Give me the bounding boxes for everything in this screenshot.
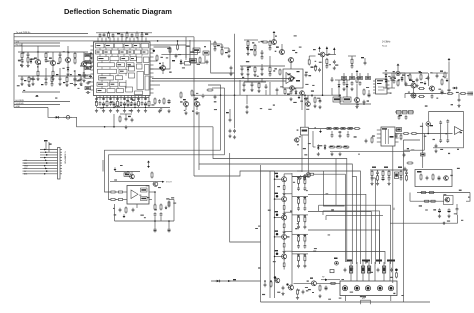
wire [211,280,261,282]
junction [108,32,110,34]
transistor Q404 [271,40,277,45]
blob label [20,65,22,66]
transistor Q403 [194,102,200,111]
blob label [377,80,383,81]
resistor R456 [308,173,315,175]
arrow Vcc B [326,46,328,54]
wire [239,80,241,95]
blob label [217,45,228,53]
transistor Q57 [288,285,294,290]
arrow dark [298,95,301,99]
wire [304,95,306,127]
wire [335,80,350,83]
wire [102,160,104,172]
wire [318,54,336,56]
resistor group stage 5 [292,254,308,268]
resistor R436 [301,127,309,135]
blob label [141,198,146,200]
resistor R463 [368,266,371,273]
wire [114,204,116,221]
junction [104,126,106,128]
capacitor C446 [168,228,171,233]
resistor R433 [420,174,422,181]
wire [418,134,424,151]
wire [332,131,348,134]
junction [322,94,324,96]
wire [113,114,115,127]
wire U401 top pins [98,38,146,42]
wire [247,76,249,82]
chain fb1 [348,56,356,69]
wire rail B [269,171,271,298]
ground [233,135,236,139]
wire [154,60,158,62]
capacitor C428 [439,121,442,125]
diode D420 dark [424,81,427,85]
wire [297,170,302,172]
chain ladder1 [20,52,23,67]
svg-text:ABL: ABL [24,173,27,176]
wire [224,47,229,49]
svg-text:GND: GND [24,166,29,168]
svg-text:GND: GND [16,106,21,108]
capacitor C437 [331,133,334,137]
capacitor C431 [446,139,449,143]
chain rc6 [405,170,408,181]
wire tall x199 [198,112,200,170]
wire [301,95,303,110]
wire [417,133,453,135]
wire [398,72,428,74]
wire [427,126,429,133]
junction [67,51,68,52]
wire [246,95,248,104]
resistor R466 [395,272,397,279]
blob label [377,83,382,84]
resistor R477 [409,73,411,81]
resistor group stage 2 [292,197,308,211]
wire [417,192,470,194]
chain lb1 [31,76,34,86]
blob label [86,54,90,56]
chain tc4 [269,40,272,66]
wire vert extra1 [356,176,358,264]
wire row2 [18,75,88,77]
wire [433,134,463,148]
transistor Q54 stage [274,230,292,253]
wire [383,73,395,88]
transistor Q419 [129,174,134,179]
chain lb2 [51,76,54,87]
wire [339,89,347,97]
blob label [409,80,413,81]
wire nest3 [326,215,383,217]
capacitor C462 [343,81,346,85]
resistor R468 [428,192,435,194]
blob label [296,80,300,82]
resistor R407b [199,57,201,64]
resistor R443 [336,146,343,148]
svg-text:9V reg: 9V reg [16,43,23,46]
resistor Rx [136,32,138,39]
capacitor C449 [302,290,305,294]
resistor R472 [315,65,317,72]
wire [316,282,340,284]
wire big nest [194,171,360,264]
junction [311,94,313,96]
wire H bus2 [152,80,286,82]
bracket mark [361,298,371,304]
wire [230,153,261,242]
capacitor C447 [264,283,267,287]
label row [95,98,147,99]
diode D414 dark [147,164,150,168]
capacitor C439 [347,133,350,137]
ground [195,111,198,115]
resistor R482 [397,128,402,132]
wire [196,51,198,55]
component box [180,56,205,65]
wire bus H [14,36,194,38]
capacitor C401 [99,33,102,37]
wire [393,208,395,210]
svg-text:Deflection Schematic Diagram: Deflection Schematic Diagram [64,7,172,16]
svg-text:V.OUT: V.OUT [166,182,172,184]
wire left border [13,33,15,108]
chain tc2 [254,44,256,57]
ground [124,125,127,129]
wire [458,94,460,98]
wire [185,37,187,58]
capacitor C409 [131,118,134,122]
chain ladder3 [59,52,62,76]
wire nest1 [319,205,391,264]
op-amp interior marks [288,71,300,79]
text CN401 labels [24,151,67,176]
capacitor C463 [351,81,354,85]
capacitor C418 [305,73,308,77]
resistor R478 [420,74,422,81]
capacitor C461 [333,60,336,64]
blob label [287,94,290,95]
ground [158,109,161,113]
capacitor C413 [229,118,232,122]
wire [46,60,53,62]
chain ladder8 [58,76,61,86]
resistor R465 [330,270,334,273]
chain rt2 [221,44,224,55]
wire [315,173,346,175]
ground [355,105,358,109]
wire [97,107,171,109]
transistor Q102 [50,52,56,70]
wire [37,46,39,52]
chain lb3 [65,76,68,87]
chain rc4 [387,170,390,185]
wire [294,282,312,284]
junction [363,103,365,105]
resistor R440 [347,128,354,130]
chain ladder4 [74,52,76,76]
wire [307,135,309,172]
blob label [78,74,80,75]
transistor Q421 [319,52,325,57]
chain rc5 [400,170,403,181]
wire [422,156,424,168]
resistor R467 [420,192,427,194]
pincushion pins [377,130,399,142]
junction [154,191,156,193]
transistor Q422 [305,173,310,178]
chain tc10 [242,82,245,92]
blob label [334,258,338,260]
wire nestB [199,164,352,264]
capacitor C469 [299,175,302,179]
transformer T401 box [376,79,388,94]
transistor Q56 [274,278,279,283]
wire [185,45,187,60]
blob label [334,98,340,100]
transistor Q414 [410,93,416,98]
resistor R427 [441,79,443,86]
blob label [372,167,402,168]
resistor R462 [362,266,365,273]
transistor Q413 [410,83,416,88]
wire [97,97,150,99]
cluster above pincushion [395,111,414,120]
resistor R459 [319,285,321,292]
capacitor C422 [363,100,366,104]
diode D416 [215,280,221,283]
resistor R406c [190,59,197,63]
resistor R112 [85,54,91,57]
transistor Q410 [305,102,310,107]
wire [265,281,271,283]
wire [409,193,411,202]
small box2 [203,51,209,55]
junction [193,94,195,96]
capacitor C453 [390,268,393,272]
wire vert x457 [457,215,459,223]
transistor Q412 dark [396,71,400,75]
ground [289,97,292,101]
arrow Vcc C [333,47,335,54]
op-amp U401 outline [94,42,151,96]
ground [333,66,336,70]
wire [352,176,376,178]
dark dot [286,283,288,285]
resistor group stage 3 [292,215,308,229]
resistor R464 [383,266,386,273]
op-amp U401 internal blocks [96,43,150,94]
ground [438,214,441,218]
resistor R113 [85,61,91,64]
wire [261,170,271,172]
wire [131,172,133,175]
blob label [183,99,186,100]
wire bus lower3 [14,106,48,108]
ground [338,152,341,156]
resistor R420 [333,97,341,102]
blob label [276,47,279,48]
wire stage out1 [292,175,308,177]
diode D407 [385,78,388,84]
wire vert extra2 [375,178,377,264]
wire rail B2 [274,171,276,298]
ground [184,111,187,115]
capacitor C460 [318,68,321,72]
wire out4 [308,230,380,264]
capacitor C440 [365,139,368,143]
op-amp U404 box [127,186,149,205]
blob label [49,58,52,59]
junction [234,94,236,96]
ground [318,294,321,298]
blob label [310,278,313,279]
resistor R435 [407,162,414,164]
capacitor C104 [82,72,85,82]
resistor R425 [418,88,425,90]
blob label [250,49,253,50]
arrow Vcc [273,31,276,40]
ground group below U401 [95,109,147,113]
chain tc11 [250,82,253,92]
junction [154,220,156,222]
chain x327 [326,58,329,69]
transistor Q402 [183,102,189,111]
ground [313,104,316,108]
wire [270,170,275,172]
resistor R430 [403,133,410,135]
resistor R473 [342,77,347,80]
capacitor C410 [175,54,178,58]
blob label [145,33,148,34]
capacitor C426 [441,90,444,95]
capacitor C464 [359,81,362,85]
blob label [350,268,385,272]
resistor R439 [340,128,347,130]
wire [404,149,418,151]
svg-text:TO MAIN PWB: TO MAIN PWB [64,151,67,164]
transistor Q51 stage [274,173,292,196]
transistor Q417 [443,176,448,181]
wire U401 left pins [91,46,94,90]
blob label [361,57,364,58]
wire nest2 [323,211,380,264]
capacitor C421 [319,99,322,103]
wire [212,87,225,89]
wire stub row [344,73,368,77]
resistor R411 [258,41,269,43]
resistor R441 [354,128,361,130]
chain tr2 [393,73,396,84]
resistor R401 [108,32,110,39]
transistor Q420 [152,182,157,187]
resistor R475 [358,77,363,80]
wire [405,93,446,95]
capacitor C411 [202,94,205,98]
capacitor C458 [233,129,236,133]
wire bottom [261,301,431,303]
junction [113,126,115,128]
chain tc13 [265,84,268,89]
resistor internal [141,188,148,201]
blob label [86,61,90,63]
wire [395,133,402,135]
wire bus 9V [14,43,60,46]
capacitor C432 [435,144,438,148]
chain tc8 [260,66,263,76]
chain rt3 [227,48,230,58]
blob label [194,99,197,100]
wire [149,199,152,201]
wire [96,32,152,34]
wire bus 12V [14,41,60,43]
ground dark [123,214,126,218]
arrow Vcc A [318,46,320,52]
wire cols [351,262,390,281]
resistor R406 [156,55,158,62]
resistor R103 [36,70,39,81]
capacitor group below U401 [96,100,151,107]
transistor Q104 [81,52,87,72]
ground [447,214,450,218]
capacitor C408 [125,117,128,121]
transformer T401 pins [373,81,390,93]
blob label [226,112,229,113]
resistor R481 [395,172,399,179]
junction [427,133,429,135]
wire [309,56,315,60]
blob label [24,80,26,81]
svg-text:H.DRIVE: H.DRIVE [16,100,25,102]
resistor group stage 4 [292,234,308,248]
blob label [117,33,120,34]
capacitor C405 [131,33,134,37]
chain tc1 [246,40,249,56]
diode D401 [180,59,183,65]
wire row2 [240,65,285,67]
dark dot [274,276,277,279]
blob label [34,58,37,59]
dark dot [395,269,398,272]
diode D405 [346,83,349,89]
capacitor C459 [246,105,249,109]
blob label [172,60,175,61]
junction [37,51,38,52]
transistor Q405 [279,44,285,55]
wire [345,296,347,302]
wire pair left2 [109,155,225,200]
chain rt1 [214,41,217,52]
resistor R442 [329,146,336,148]
resistor R457 [270,281,272,288]
chain ladder2 [26,52,29,67]
wire [441,124,448,139]
transistor Q58 [311,281,317,286]
blob label [63,82,65,83]
connector CN402 box [340,281,397,296]
wire bus lower1 [14,100,70,102]
resistor R110 [89,52,92,68]
resistor R434 [432,174,434,181]
wire [308,128,326,130]
junction [126,32,128,34]
diode D415 dark [162,181,165,183]
blob label [417,171,422,173]
wire [120,114,132,117]
wire [110,181,163,183]
